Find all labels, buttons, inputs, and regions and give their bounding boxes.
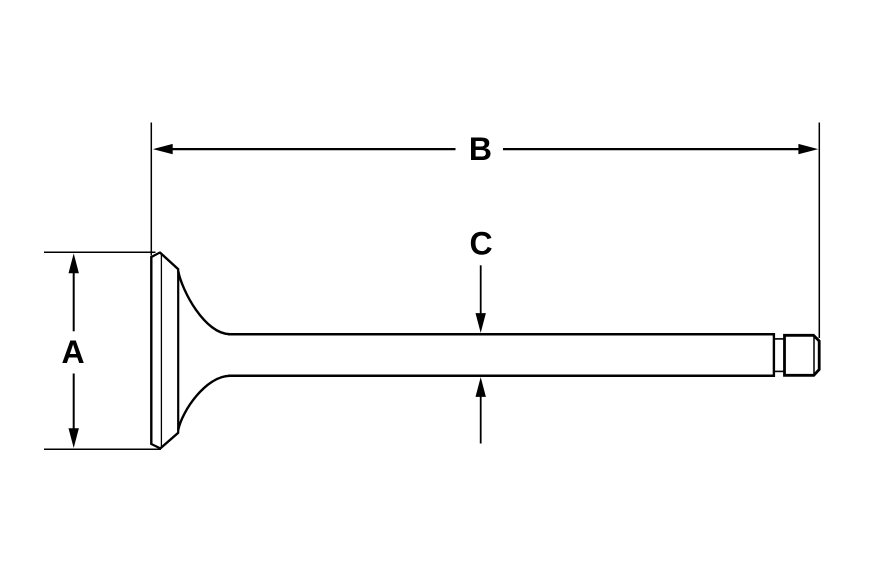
dim C lower arrowhead — [476, 377, 486, 397]
dim A bottom arrowhead — [69, 428, 79, 448]
keeper groove top — [774, 338, 785, 340]
keeper groove bottom — [774, 370, 785, 372]
dim B extension line left — [150, 123, 152, 256]
dim B extension line right — [818, 123, 820, 339]
stem top line — [228, 333, 774, 336]
stem end face — [773, 333, 775, 377]
svg-text:B: B — [469, 131, 492, 167]
dim B line right segment — [503, 148, 803, 150]
valve head bottom seat chamfer — [160, 433, 178, 449]
top fillet — [178, 271, 230, 334]
valve head left edge — [150, 257, 152, 444]
dim A extension line top — [44, 251, 156, 253]
valve head rim edge — [177, 269, 179, 434]
dim B line left segment — [168, 148, 456, 150]
dim C upper arrow shaft — [480, 265, 482, 316]
dim C lower arrow shaft — [480, 394, 482, 444]
dim A line lower segment — [73, 374, 75, 433]
valve head face line — [160, 253, 162, 448]
valve head top bevel — [151, 252, 161, 257]
valve head bottom bevel — [151, 444, 161, 449]
svg-text:A: A — [61, 334, 84, 370]
dim C upper arrowhead — [476, 313, 486, 333]
valve tip outline — [785, 335, 820, 375]
dim B right arrowhead — [798, 144, 818, 154]
dim B left arrowhead — [153, 144, 173, 154]
stem bottom line — [228, 375, 774, 378]
dim A top arrowhead — [69, 253, 79, 273]
bottom fillet — [178, 376, 230, 430]
svg-text:C: C — [469, 226, 492, 262]
valve tip chamfer line — [813, 336, 815, 376]
dim A extension line bottom — [44, 448, 161, 450]
dim A line upper segment — [73, 268, 75, 331]
valve head top seat chamfer — [160, 252, 179, 269]
